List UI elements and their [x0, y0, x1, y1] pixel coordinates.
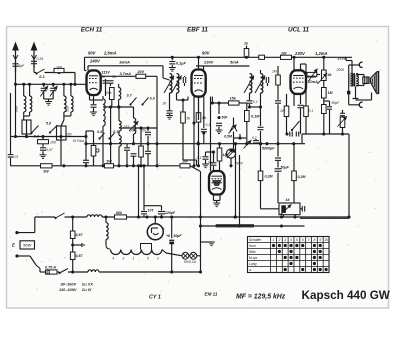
svg-text:S.1: S.1 — [39, 75, 45, 79]
label 240V — [89, 59, 101, 64]
label 0,3 ebf — [206, 123, 211, 127]
capacitor osc foot3 — [145, 142, 151, 166]
switch S7 — [127, 94, 137, 106]
wire ant A1 down — [14, 66, 17, 138]
label 0,1 ucl — [309, 109, 314, 113]
resistor osc pad — [91, 146, 99, 157]
wire upper rail — [102, 215, 351, 218]
capacitor 50a — [101, 75, 109, 96]
wire EBF pins down b — [198, 97, 200, 120]
tube EM11 — [209, 171, 225, 195]
svg-text:1W: 1W — [43, 170, 49, 174]
wire phono vertical — [347, 65, 350, 105]
label EBF 11 tube — [187, 27, 208, 34]
resistor 1W bus far left — [41, 164, 53, 174]
CY1 socket loop — [141, 244, 152, 250]
svg-text:3: 3 — [284, 238, 286, 242]
svg-text:0,1µF: 0,1µF — [176, 62, 186, 66]
label 1W ucl — [281, 52, 287, 56]
svg-text:0,5: 0,5 — [14, 155, 19, 159]
coil L2b — [64, 84, 73, 116]
tube CY1 circle — [147, 217, 164, 240]
capacitor ant A2 0,51 — [31, 57, 44, 64]
capacitor osc feed — [145, 128, 151, 144]
phono terminal bottom — [349, 102, 363, 107]
svg-text:0,57: 0,57 — [46, 148, 54, 152]
label 1k tone — [286, 198, 291, 202]
svg-text:1: 1 — [273, 238, 275, 242]
resistor UCL g — [304, 64, 309, 134]
svg-text:8: 8 — [313, 238, 315, 242]
label 210V speaker — [337, 57, 347, 61]
svg-text:210V: 210V — [337, 57, 347, 61]
label 205V — [307, 75, 317, 79]
coil L1a — [24, 84, 26, 116]
divider tap — [71, 243, 84, 247]
resistor 0,2M b — [292, 144, 307, 203]
transformer OT primary — [351, 74, 353, 87]
page frame — [7, 27, 389, 309]
capacitor 50pF fb — [327, 101, 340, 112]
trimmer box band2 — [57, 116, 67, 166]
avc wiper arrow — [244, 140, 252, 149]
wire EM11 pins — [214, 195, 221, 204]
wire heater to lamps — [162, 250, 182, 256]
svg-text:E: E — [12, 243, 15, 248]
tone switch box — [279, 203, 300, 215]
label 2,6mA — [103, 51, 117, 56]
wire feed v2 — [238, 155, 241, 228]
label 1,2mA right — [315, 51, 328, 56]
label ucl r1 — [280, 109, 286, 113]
svg-text:9V/0,1A: 9V/0,1A — [184, 260, 197, 264]
label 0,5M pot — [224, 135, 233, 139]
svg-text:800: 800 — [116, 211, 122, 215]
resistor 800 rail — [115, 211, 127, 219]
svg-text:6pF: 6pF — [18, 64, 25, 68]
switch S9 — [141, 97, 154, 106]
svg-text:5.8: 5.8 — [46, 122, 51, 126]
capacitor 0,57 band — [40, 144, 54, 155]
svg-text:510: 510 — [66, 106, 70, 112]
wire osc components join — [103, 96, 119, 166]
volume pot circle — [226, 149, 235, 158]
wire ECH pin1 down — [90, 95, 104, 100]
coil osc grid — [119, 84, 121, 100]
svg-text:90–160V: 90–160V — [61, 281, 77, 286]
ground IF1 — [166, 116, 173, 120]
resistor 100 on switch row — [54, 66, 64, 73]
label 2000 OT — [335, 68, 344, 72]
svg-text:Kl.Fass: Kl.Fass — [73, 139, 85, 143]
label lamps — [184, 260, 197, 264]
wire af line y134 — [302, 134, 349, 144]
svg-text:0,2M: 0,2M — [298, 175, 307, 179]
capacitor ant A1 6pF — [13, 64, 25, 68]
wire rail2 y226 — [199, 224, 305, 227]
wire rail to OT — [346, 57, 352, 73]
choke filter v — [104, 215, 110, 249]
svg-text:0,57: 0,57 — [76, 254, 84, 258]
label UCL 11 tube — [288, 27, 310, 34]
transformer OT secondary — [356, 74, 358, 87]
capacitor 50F det — [216, 101, 229, 133]
svg-text:0,3: 0,3 — [206, 123, 211, 127]
capacitor 50uF coupling — [275, 163, 290, 203]
label 1M fb — [328, 91, 334, 95]
svg-text:110–240V: 110–240V — [59, 287, 77, 292]
resistor 0,2M a — [258, 142, 263, 180]
resistor 15k — [229, 97, 240, 106]
capacitor IF2 foot — [247, 99, 253, 109]
svg-text:UCL 11: UCL 11 — [288, 27, 310, 34]
capacitor EBF cathode — [201, 97, 207, 144]
svg-text:50k: 50k — [106, 91, 112, 95]
wire frame vertical — [348, 134, 350, 218]
resistor 1W bus right — [180, 160, 190, 168]
scan noise speckles — [10, 32, 381, 305]
resistor osc anode — [136, 70, 146, 79]
wire fb links — [324, 101, 330, 134]
label 0,1 em11 — [197, 156, 202, 160]
svg-text:1W: 1W — [182, 160, 188, 164]
resistor 100 band — [38, 137, 56, 145]
switch S2 — [30, 126, 39, 139]
label 4k fb — [327, 73, 333, 77]
svg-text:4: 4 — [290, 238, 292, 242]
phono terminal top — [349, 62, 363, 67]
svg-text:111V: 111V — [102, 71, 111, 75]
resistor avc decouple — [272, 66, 281, 157]
label 3,7mA — [120, 72, 132, 76]
svg-text:50µF: 50µF — [281, 166, 290, 170]
resistor fb1 — [322, 70, 327, 88]
resistor osc C — [139, 126, 144, 165]
IF1 coil primary — [170, 74, 172, 109]
svg-text:90V: 90V — [88, 51, 97, 56]
svg-text:6: 6 — [302, 238, 304, 242]
capacitor af line b — [296, 132, 298, 137]
coil L2a — [64, 84, 66, 116]
speaker cone — [371, 71, 379, 94]
resistor EBF grid leak — [181, 98, 197, 165]
svg-text:1M: 1M — [272, 70, 277, 74]
svg-text:EM 11: EM 11 — [205, 292, 218, 297]
capacitor UCL cathode — [298, 105, 304, 134]
resistor fb2 — [322, 88, 327, 105]
switch S1 — [35, 69, 44, 79]
resistor EBF cathode — [196, 97, 207, 166]
wire UCL pins down — [287, 94, 301, 106]
label IF1 50 — [163, 102, 167, 106]
svg-text:100: 100 — [50, 141, 56, 145]
wire osc v1 — [109, 107, 112, 166]
capacitor EM11 left — [202, 150, 215, 167]
svg-text:30: 30 — [163, 102, 167, 106]
svg-text:2: 2 — [277, 238, 280, 242]
wire bus diagonal — [190, 166, 201, 172]
wire em feed long — [210, 97, 212, 171]
wire tone box left — [261, 181, 280, 209]
svg-text:0,1: 0,1 — [197, 156, 202, 160]
capacitor EBF k2 — [192, 121, 195, 126]
label MF frequency — [236, 293, 286, 300]
svg-text:5k: 5k — [187, 117, 191, 121]
wire bus drop b+ — [137, 164, 140, 218]
wire 90V rail corner — [85, 57, 87, 70]
wire mains top to choke — [65, 215, 88, 218]
capacitor em pot — [275, 158, 281, 163]
svg-text:2: 2 — [156, 257, 159, 261]
wire osc anode down — [101, 76, 157, 96]
svg-text:EBF 11: EBF 11 — [187, 27, 208, 34]
svg-text:20V: 20V — [137, 70, 145, 74]
tube UCL11 — [291, 70, 307, 94]
label 0,2M a2 — [265, 175, 274, 179]
svg-text:0,2M: 0,2M — [265, 175, 274, 179]
IF2 trimmer right — [266, 77, 268, 86]
svg-text:230V: 230V — [203, 60, 214, 65]
svg-text:1W: 1W — [106, 160, 112, 164]
svg-text:5: 5 — [296, 238, 298, 242]
choke bottom — [88, 270, 99, 272]
IF1 core arrows — [164, 76, 182, 94]
capacitor padder — [124, 144, 130, 168]
coil osc A1 — [117, 105, 121, 131]
svg-text:5mA: 5mA — [230, 60, 239, 65]
svg-text:Kurz: Kurz — [249, 244, 256, 248]
wire band row — [11, 135, 87, 138]
coil osc B — [132, 107, 136, 145]
switch UCL — [291, 121, 300, 131]
mains terminal top — [15, 231, 34, 234]
wire EBF screen top — [198, 57, 200, 69]
svg-text:Kapsch 440 GW: Kapsch 440 GW — [302, 289, 391, 302]
svg-text:Lang: Lang — [249, 262, 257, 266]
wire lamps right — [197, 172, 201, 273]
svg-text:Schalter: Schalter — [249, 238, 262, 242]
wire ECH pin2 down — [91, 95, 97, 112]
label 90V — [88, 51, 97, 56]
wire feed v1 — [234, 142, 237, 218]
trimmer box band1 — [22, 116, 31, 138]
IF1 trimmer caps — [183, 76, 185, 86]
svg-text:2,6mA: 2,6mA — [103, 51, 117, 56]
wire tone box stubs — [284, 215, 296, 217]
coil osc A2 — [119, 131, 121, 166]
svg-text:230V: 230V — [294, 51, 306, 56]
label 90V right — [202, 51, 211, 56]
feedback pot lower — [338, 116, 348, 136]
wire EBF pins down a — [193, 97, 195, 166]
wire osc h-link — [103, 105, 134, 108]
label E mains — [12, 243, 15, 248]
svg-text:0,1: 0,1 — [252, 136, 257, 140]
label 230V right — [294, 51, 306, 56]
label 5000pF — [262, 147, 275, 151]
tone box cap — [300, 206, 305, 212]
capacitor det line drop — [196, 141, 199, 145]
label mains voltages — [59, 281, 93, 292]
wire bus drop caps — [142, 164, 161, 205]
resistor 0,1M avc — [245, 111, 250, 146]
IF2 coil primary — [250, 74, 252, 100]
svg-text:0,75 A: 0,75 A — [45, 266, 56, 270]
svg-text:9: 9 — [319, 238, 321, 242]
wire switch row — [45, 71, 76, 84]
label 0,1M — [251, 115, 260, 119]
resistor 1k rail link — [244, 42, 249, 59]
svg-text:1W: 1W — [280, 109, 286, 113]
switch S5 — [46, 122, 58, 134]
svg-text:Σu IX: Σu IX — [81, 287, 92, 292]
divider chain — [70, 217, 83, 272]
svg-text:5000: 5000 — [130, 129, 137, 133]
svg-text:S.4: S.4 — [97, 130, 102, 134]
svg-text:0,1: 0,1 — [309, 109, 314, 113]
wire IF1 sec to EBF grid — [177, 93, 189, 100]
svg-text:0,57: 0,57 — [76, 233, 84, 237]
wire mains bottom to choke — [57, 270, 88, 273]
svg-text:7: 7 — [308, 238, 310, 242]
wire 15k right — [239, 103, 247, 111]
mains terminal bottom — [15, 254, 45, 272]
IF2 coil secondary — [261, 70, 263, 99]
svg-text:1: 1 — [133, 257, 135, 261]
electrolytic 50uF — [166, 215, 182, 272]
ground ECH cathode — [90, 112, 97, 116]
svg-text:50: 50 — [101, 75, 105, 79]
label 0,1 IF2 — [253, 100, 258, 104]
capacitor fb small — [340, 110, 345, 117]
resistor 1W bus left — [105, 160, 114, 168]
coil L1b — [24, 84, 32, 116]
capacitor af line a — [285, 132, 292, 137]
ground band — [40, 155, 47, 159]
label 52mA — [308, 80, 319, 84]
diode load pot — [229, 118, 238, 150]
svg-text:S.9: S.9 — [150, 97, 155, 101]
label 5000 b — [141, 129, 147, 133]
wire main grid bus — [14, 83, 87, 86]
svg-text:1,2mA: 1,2mA — [315, 51, 328, 56]
IF2 core arrows — [244, 76, 265, 94]
svg-text:15k: 15k — [230, 97, 237, 101]
wire OT sec to vc — [356, 75, 364, 86]
capacitor volume top — [252, 136, 259, 143]
wire Kl Fass node — [84, 131, 93, 166]
switch S4 — [97, 130, 105, 140]
wire UCL top pins — [294, 57, 306, 70]
svg-text:5: 5 — [147, 257, 149, 261]
capacitor 50b — [108, 75, 116, 86]
svg-text:16mA: 16mA — [119, 59, 130, 64]
label 1M em11 — [223, 153, 229, 157]
wire EM11 top — [211, 152, 217, 171]
feedback pot top — [318, 56, 328, 84]
variable capacitor C-tune-2 — [50, 83, 58, 99]
capacitor osc foot2 — [131, 154, 137, 166]
wire tuning gnd bar — [44, 99, 54, 102]
svg-text:56W: 56W — [23, 243, 32, 248]
resistor small rail1 — [259, 55, 265, 59]
IF1 coil secondary — [177, 74, 179, 94]
svg-text:Σu XX: Σu XX — [81, 281, 93, 286]
wire det bottom — [229, 158, 232, 167]
resistor fb3 — [322, 105, 327, 136]
speaker voice coil — [363, 77, 369, 84]
resistor 50k osc — [106, 88, 114, 100]
svg-text:5000pF: 5000pF — [262, 147, 275, 151]
resistor UCL screen — [281, 55, 292, 59]
antenna A1 — [12, 42, 19, 73]
label 16mA — [119, 59, 130, 64]
capacitor IF1 foot — [167, 108, 173, 116]
label KlaFass — [73, 139, 85, 143]
label ECH 11 tube — [81, 27, 103, 34]
wire 240V rail — [87, 66, 89, 71]
ground EM11 — [213, 203, 220, 207]
shielded segment — [216, 225, 254, 227]
heater scallops — [111, 250, 163, 261]
svg-text:Män: Män — [249, 250, 256, 254]
capacitor 220pF filter — [158, 206, 176, 219]
wire screen to IF1 — [88, 66, 170, 80]
lamp dial 2 — [189, 252, 197, 259]
transformer OT core — [350, 73, 356, 87]
lamp dial 1 — [182, 252, 189, 259]
wire EBF anode — [196, 66, 250, 70]
label Kapsch 440 GW — [302, 289, 391, 302]
label 111V — [102, 71, 111, 75]
svg-text:10: 10 — [324, 238, 328, 242]
wire rail1 90V — [85, 56, 353, 59]
svg-text:600: 600 — [15, 106, 19, 112]
capacitor 0,1uF rail1 — [169, 57, 175, 67]
wire IF2 sec down — [250, 99, 263, 122]
capacitor 10T filter — [141, 206, 154, 217]
tube ECH11 — [87, 70, 101, 95]
trimmer osc B — [129, 121, 139, 131]
label 5000 a — [130, 129, 137, 133]
svg-text:CY 1: CY 1 — [149, 295, 161, 301]
label 20V bus — [207, 161, 215, 165]
wire OT ground — [353, 87, 372, 101]
svg-text:MF = 129,5 kHz: MF = 129,5 kHz — [236, 293, 286, 300]
label 0,1uF rail cap — [176, 62, 186, 66]
choke top — [87, 215, 102, 217]
switch S11 — [108, 130, 119, 140]
label 5mA ebf — [230, 60, 239, 65]
label 230V ebf — [203, 60, 214, 65]
capacitor det — [258, 122, 264, 145]
volume pot arrow — [226, 149, 234, 158]
switch mains bottom — [58, 269, 68, 275]
svg-text:0,5M: 0,5M — [224, 135, 233, 139]
capacitor osc foot — [83, 160, 89, 167]
wire detector line y144 — [86, 142, 305, 145]
svg-text:ECH 11: ECH 11 — [81, 27, 103, 34]
resistor EM11 grid — [217, 142, 222, 171]
svg-text:150: 150 — [66, 132, 72, 136]
resistor UCL cathode — [284, 106, 289, 134]
wire ant A2 to switch — [34, 64, 36, 73]
ground rail cap — [169, 68, 176, 72]
resistor anode stopper — [306, 69, 320, 82]
wire avc corner — [84, 131, 87, 138]
variable capacitor C-tune-1 — [40, 83, 48, 99]
switch position table — [248, 237, 330, 273]
